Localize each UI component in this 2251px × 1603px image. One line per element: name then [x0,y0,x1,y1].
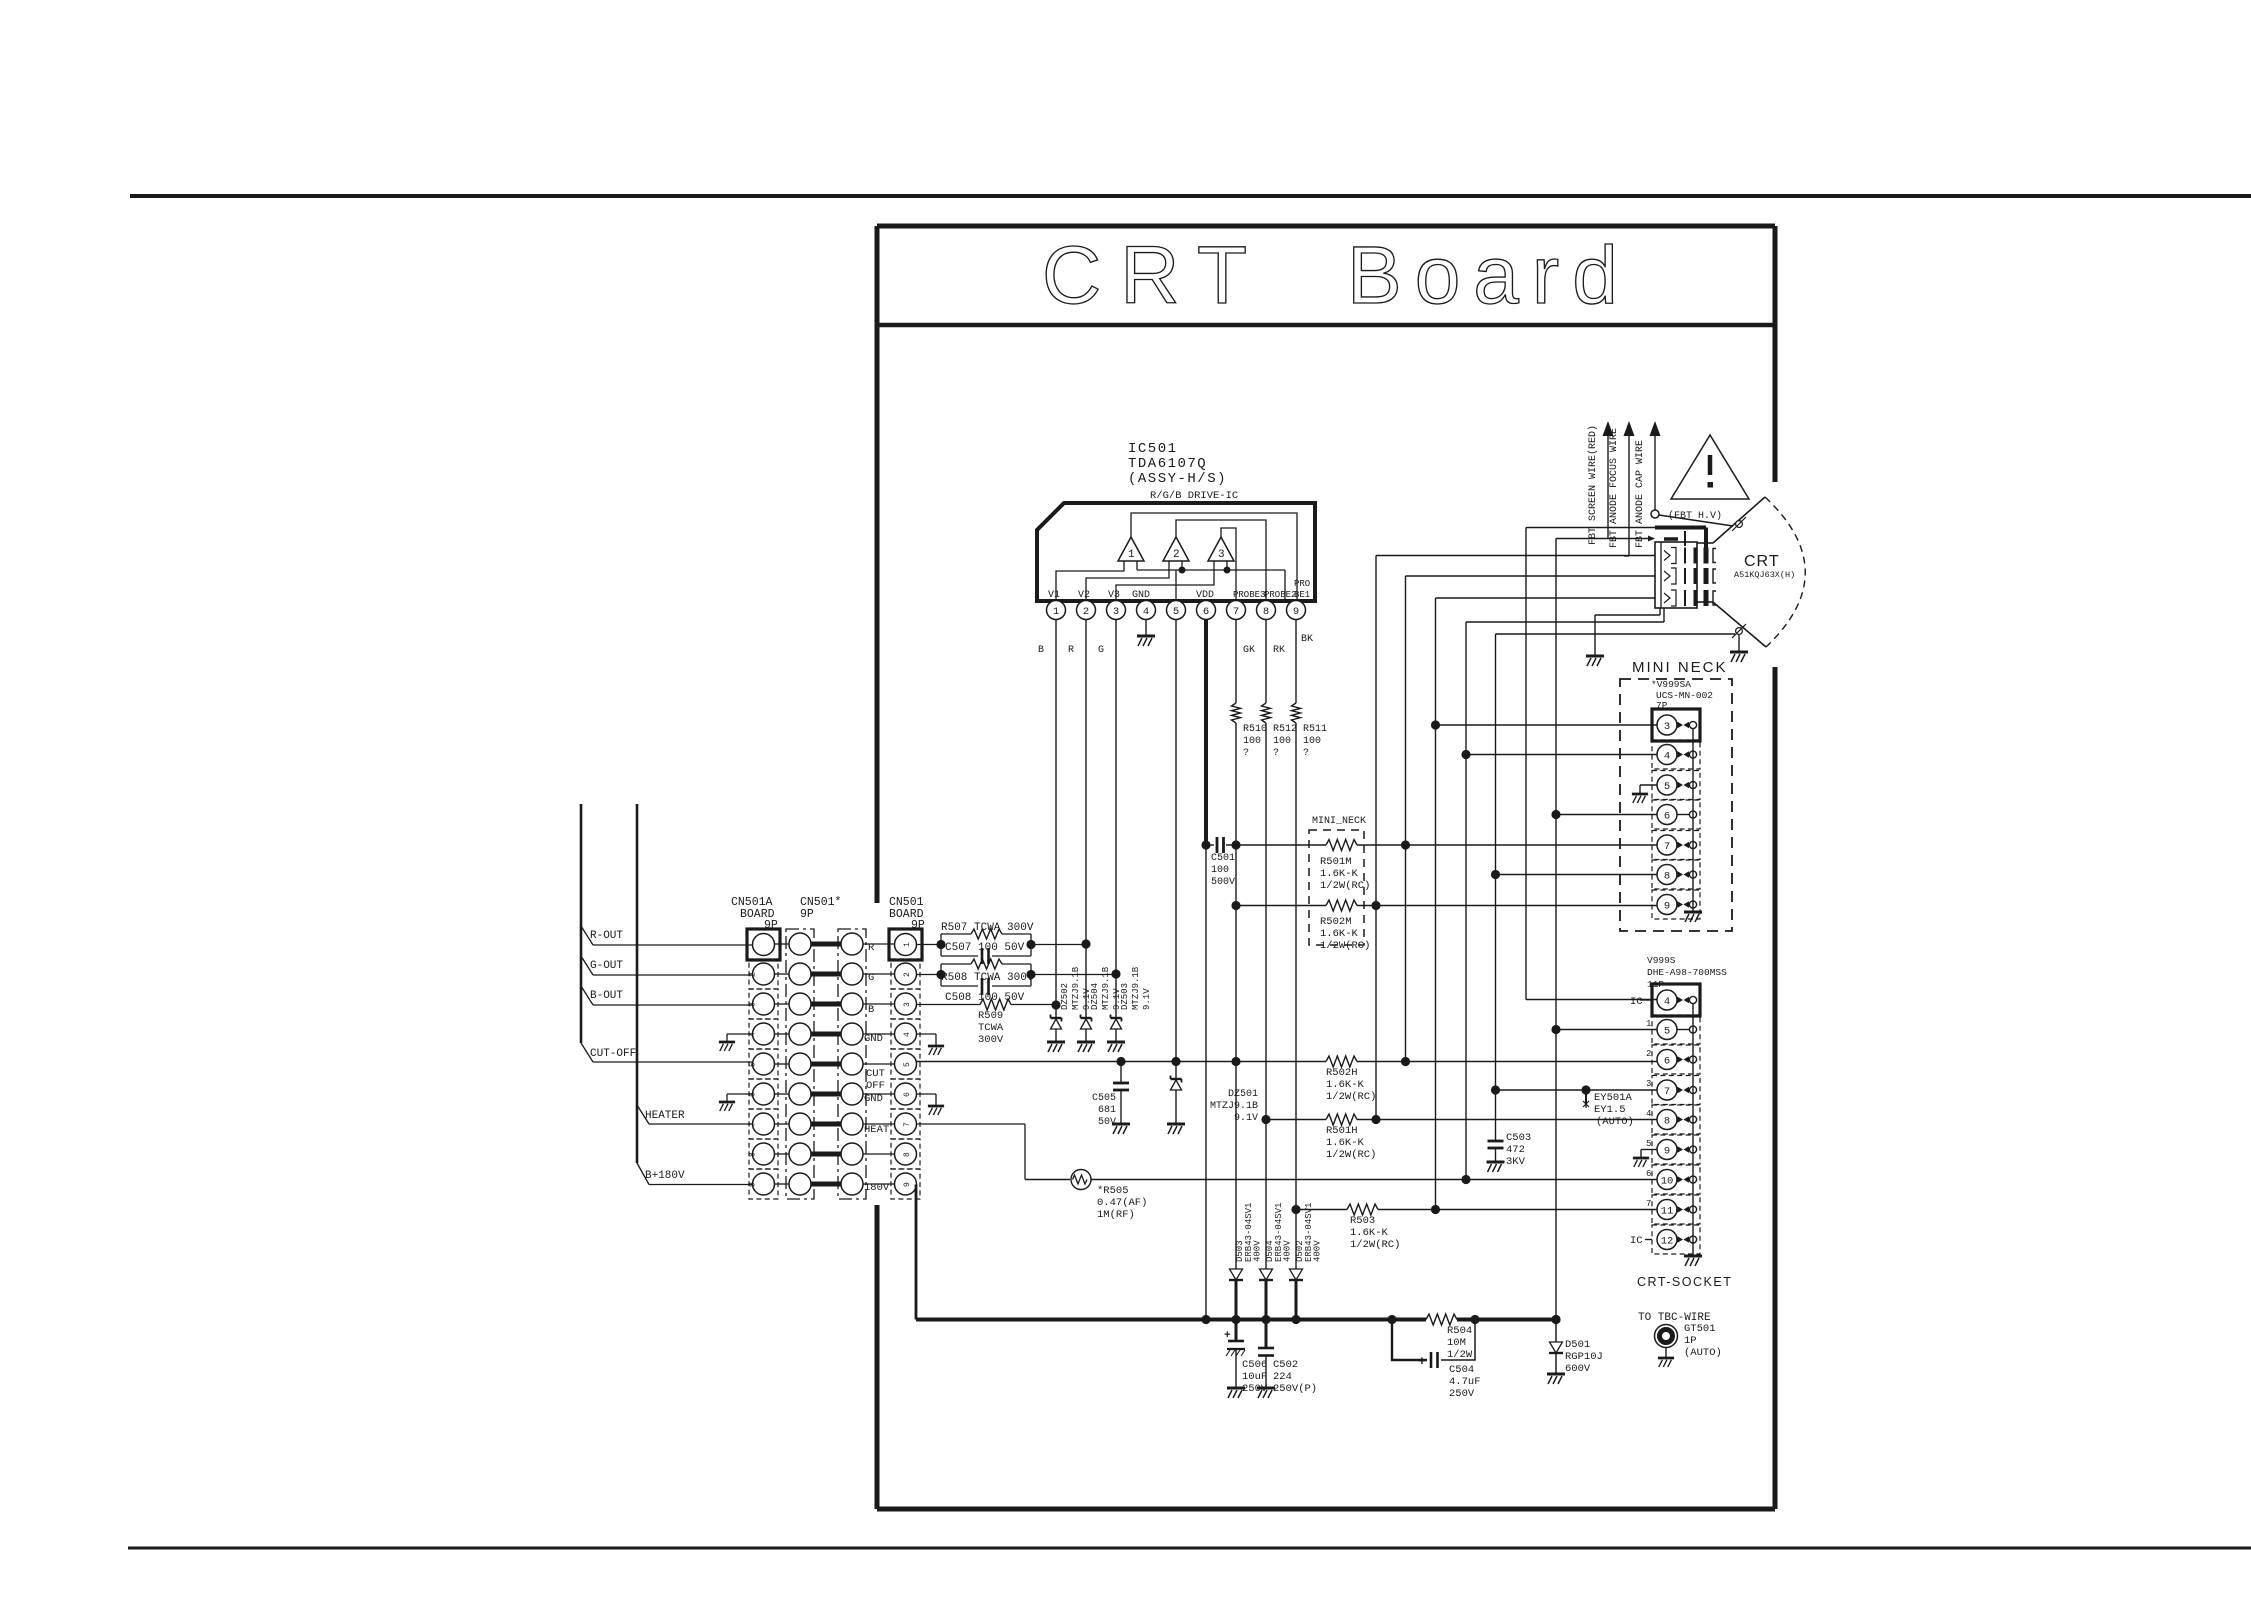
connector CN501A pin5 [749,1049,778,1079]
connector CN501* pair row6 [775,1093,790,1095]
svg-text:RK: RK [1273,645,1285,656]
svg-text:GT501: GT501 [1684,1323,1716,1335]
svg-text:GND: GND [864,1093,883,1105]
connector CN501 pin1 [889,929,922,960]
wire cathode row3 [1436,597,1656,599]
svg-text:VDD: VDD [1196,590,1214,601]
svg-text:7: 7 [903,1122,912,1127]
svg-text:PRO: PRO [1294,579,1310,589]
connector CN501 pin4 [891,1019,920,1049]
svg-text:5: 5 [903,1062,912,1067]
svg-text:5: 5 [749,1062,758,1067]
svg-text:RGP10J: RGP10J [1565,1351,1603,1363]
connector V999SA pin8 [1652,860,1700,889]
resistor R504 [1426,1314,1457,1325]
svg-text:4: 4 [1664,996,1670,1008]
svg-text:9: 9 [1293,606,1299,618]
capacitor C505 [1120,1062,1122,1084]
CRT Board frame [877,224,1775,229]
svg-text:4: 4 [1143,606,1149,618]
svg-text:3: 3 [1218,549,1225,561]
svg-text:1/2W: 1/2W [1447,1349,1473,1361]
ground C503 [1487,1162,1505,1172]
svg-text:4: 4 [1646,1109,1651,1119]
wire CUT line [917,1061,1327,1063]
svg-text:3: 3 [1646,1079,1651,1089]
zener DZ501 [1171,1078,1182,1080]
connector CN501A pin9 [749,1169,778,1199]
top page rule [130,194,2251,198]
svg-text:10M: 10M [1447,1337,1466,1349]
node BK-R503 [1291,1205,1300,1214]
CRT-SOCKET bus [1692,1004,1694,1256]
svg-text:4.7uF: 4.7uF [1449,1376,1481,1388]
svg-text:5: 5 [1664,1025,1670,1037]
svg-text:DZ503: DZ503 [1120,983,1130,1010]
svg-text:472: 472 [1506,1144,1525,1156]
svg-text:B: B [1038,645,1044,656]
CRT-SOCKET pin9 ground [1641,1149,1657,1151]
connector V999S pin9 [1652,1135,1700,1164]
svg-text:R502H: R502H [1326,1067,1358,1079]
svg-text:1/2W(RC): 1/2W(RC) [1326,1149,1376,1161]
svg-text:CRT: CRT [1744,553,1780,570]
resistor R503 [1296,1209,1347,1211]
svg-text:9: 9 [903,1182,912,1187]
wire cathode row2 [1406,575,1656,577]
svg-text:MTZJ9.1B: MTZJ9.1B [1210,1101,1258,1112]
node GK-R502H [1231,1057,1240,1066]
svg-text:R503: R503 [1350,1215,1375,1227]
svg-text:D501: D501 [1565,1339,1590,1351]
svg-text:TCWA: TCWA [978,1022,1004,1034]
connector CN501A pin7 [749,1109,778,1139]
svg-text:1.6K-K: 1.6K-K [1320,868,1359,880]
resistor R502H [1326,1056,1357,1067]
wire VDD thick [1204,619,1208,845]
svg-text:B: B [868,1004,874,1016]
wire R column [1085,619,1087,1018]
connector V999S pin7 [1652,1076,1700,1105]
svg-text:B+180V: B+180V [645,1170,685,1182]
amp triangle 1 [1118,537,1144,561]
svg-text:2: 2 [1173,549,1180,561]
svg-text:C501: C501 [1211,853,1235,864]
svg-text:1.6K-K: 1.6K-K [1326,1137,1365,1149]
ground MINI NECK bus [1684,912,1702,922]
wire pin5 column [1175,619,1177,1079]
connector CN501* pair row5 [775,1063,790,1065]
node G-R508 [1111,969,1120,978]
CN501A pin4 ground [727,1033,753,1035]
connector V999SA pin5 [1652,771,1700,800]
svg-text:6: 6 [1664,1055,1670,1067]
wire vert B [1405,576,1407,1062]
ground C505 [1112,1124,1130,1134]
svg-text:0.47(AF): 0.47(AF) [1097,1197,1147,1209]
FBT screen wire [1607,436,1609,539]
zener DZ504 [1081,1017,1092,1019]
connector CN501* pair row2 [775,973,790,975]
wire CN501 pin2 to R508 [917,974,942,976]
wire 180V drop [915,1184,918,1186]
svg-text:250V: 250V [1449,1388,1475,1400]
svg-text:8: 8 [1664,1115,1670,1127]
svg-text:R502M: R502M [1320,916,1352,928]
diode D501 [1555,1320,1557,1343]
svg-text:1/2W(RC): 1/2W(RC) [1320,880,1370,892]
svg-text:4: 4 [903,1032,912,1037]
svg-text:250V(P): 250V(P) [1273,1383,1317,1395]
svg-text:PROBE3: PROBE3 [1233,590,1265,600]
svg-text:C504: C504 [1449,1364,1474,1376]
HEATER tap [637,1105,649,1124]
CRT bell outline [1697,542,1713,544]
svg-text:R512: R512 [1273,724,1297,735]
svg-text:9: 9 [749,1182,758,1187]
connector CN501 pin7 [891,1109,920,1139]
svg-text:1/2W(RC): 1/2W(RC) [1350,1239,1400,1251]
connector V999SA pin4 [1652,740,1700,769]
connector CN501A pin4 [749,1019,778,1049]
connector CN501 pin6 [891,1079,920,1109]
svg-text:2: 2 [749,972,758,977]
wire MN pin8 [1496,874,1658,876]
svg-text:9P: 9P [800,908,814,921]
svg-text:5: 5 [1664,781,1670,793]
svg-text:IC: IC [1630,1235,1643,1247]
IC internal bias bus [1136,561,1138,570]
svg-text:(ASSY-H/S): (ASSY-H/S) [1128,471,1227,487]
wire vert C [1435,598,1437,1210]
amp triangle 2 [1163,537,1189,561]
CN501 pin6 ground [917,1093,937,1095]
svg-text:CRT: CRT [1042,230,1266,321]
B-OUT tap [581,986,593,1005]
wire socket pin5 [1556,1029,1657,1031]
ground bell screw [1730,652,1748,662]
wire G3 row to bell screw [1496,633,1736,635]
svg-text:PROBE2: PROBE2 [1264,590,1296,600]
svg-text:10: 10 [1661,1175,1674,1187]
svg-text:50V: 50V [1098,1117,1116,1128]
wire vert A [1375,556,1377,1120]
CUT-OFF tap [581,1043,593,1062]
svg-text:R501H: R501H [1326,1125,1358,1137]
connector V999SA pin3 [1652,709,1700,741]
svg-text:7: 7 [1664,1086,1670,1098]
svg-text:C506: C506 [1242,1359,1267,1371]
svg-text:DZ502: DZ502 [1060,983,1070,1010]
svg-text:1M(RF): 1M(RF) [1097,1209,1135,1221]
svg-text:1.6K-K: 1.6K-K [1326,1079,1365,1091]
svg-text:4: 4 [1664,750,1670,762]
svg-text:DZ504: DZ504 [1090,983,1100,1010]
wire GK column [1235,619,1237,703]
svg-text:CUT-OFF: CUT-OFF [590,1048,636,1060]
wire vert G [1555,539,1557,1320]
thick 180V bus [916,1318,1426,1322]
svg-text:DHE-A98-700MSS: DHE-A98-700MSS [1647,967,1727,978]
connector V999SA pin7 [1652,831,1700,860]
ground DZ501 [1167,1124,1185,1134]
CN501A pin6 ground [727,1093,753,1095]
zener DZ502 [1051,1017,1062,1019]
IC internal output wires [1131,513,1297,601]
svg-text:7: 7 [1233,606,1239,618]
svg-text:2: 2 [903,972,912,977]
CN501 pin4 ground [917,1033,937,1035]
wire heater row [1556,538,1648,540]
svg-text:V1: V1 [1048,590,1060,601]
svg-text:MTZJ9.1B: MTZJ9.1B [1131,966,1141,1010]
svg-text:+: + [1418,1354,1426,1369]
node GK-845 [1231,840,1240,849]
wire MN pin6 [1556,814,1657,816]
svg-text:C502: C502 [1273,1359,1298,1371]
svg-text:V999S: V999S [1647,955,1676,966]
warning triangle [1671,435,1749,499]
node R-R507 [1081,939,1090,948]
svg-text:5: 5 [1173,606,1179,618]
svg-text:R511: R511 [1303,724,1327,735]
connector CN501A pin3 [749,989,778,1019]
svg-text:10uF: 10uF [1242,1371,1267,1383]
connector CN501A pin2 [749,959,778,989]
connector CN501* pair row1 [775,943,790,945]
connector CN501A pin8 [749,1139,778,1169]
svg-text:BE1: BE1 [1294,590,1310,600]
left rail B [636,804,639,1163]
capacitor C506 [1235,1320,1238,1342]
resistor R502M [1236,905,1326,907]
svg-text:BK: BK [1301,634,1313,645]
svg-text:600V: 600V [1565,1363,1591,1375]
svg-text:1: 1 [1128,549,1135,561]
connector CN501 pin8 [891,1139,920,1169]
CRT socket block [1655,542,1697,608]
svg-text:GND: GND [1132,590,1150,601]
svg-text:V3: V3 [1108,590,1120,601]
wire B column [1055,619,1057,1018]
svg-text:100: 100 [1303,736,1321,747]
svg-text:100: 100 [1211,865,1229,876]
G-OUT tap [581,956,593,975]
svg-text:R: R [1068,645,1074,656]
connector V999SA pin6 [1652,800,1700,829]
svg-text:8: 8 [749,1152,758,1157]
resistor R510 [1232,703,1241,723]
svg-text:(AUTO): (AUTO) [1684,1347,1722,1359]
connector CN501* pair row7 [775,1123,790,1125]
wire EY501A [1496,1089,1658,1091]
svg-text:Board: Board [1347,230,1631,321]
svg-text:R509: R509 [978,1010,1003,1022]
MINI NECK bus [1692,729,1694,912]
wire G2 row [1526,527,1655,529]
svg-text:R504: R504 [1447,1325,1472,1337]
svg-text:3: 3 [749,1002,758,1007]
wire socket pin4 IC [1526,999,1657,1001]
ground DZ503 [1107,1042,1125,1052]
CRT block ground [1659,608,1661,615]
connector CN501* pair row9 [775,1183,790,1185]
wire RK column [1265,619,1267,703]
svg-text:MTZJ9.1B: MTZJ9.1B [1101,966,1111,1010]
svg-text:CRT-SOCKET: CRT-SOCKET [1637,1275,1732,1289]
svg-text:R501M: R501M [1320,856,1352,868]
connector CN501A pin6 [749,1079,778,1109]
svg-text:?: ? [1303,748,1309,759]
connector V999SA pin9 [1652,890,1700,919]
svg-text:R507 TCWA 300V: R507 TCWA 300V [941,922,1034,934]
left rail A [580,804,583,1043]
svg-text:C507 100 50V: C507 100 50V [945,942,1025,954]
svg-text:100: 100 [1273,736,1291,747]
resistor R505 [1025,1179,1070,1181]
ground DZ502 [1047,1042,1065,1052]
ground DZ504 [1077,1042,1095,1052]
connector V999S pin10 [1652,1165,1700,1194]
wire vert D [1465,622,1467,1180]
svg-text:C505: C505 [1092,1093,1116,1104]
svg-text:11: 11 [1661,1205,1674,1217]
MINI NECK pin5 ground [1640,784,1657,786]
resistor R512 [1262,703,1271,723]
svg-text:HEAT: HEAT [864,1124,889,1136]
svg-text:500V: 500V [1211,877,1235,888]
svg-text:FBT ANODE CAP WIRE: FBT ANODE CAP WIRE [1635,440,1646,548]
IC internal input wires [1056,561,1124,601]
wire vert F [1525,528,1527,1000]
FBT anode cap wire [1654,436,1656,510]
svg-text:8: 8 [903,1152,912,1157]
svg-text:1.6K-K: 1.6K-K [1350,1227,1389,1239]
svg-text:R-OUT: R-OUT [590,930,623,942]
svg-text:7: 7 [1646,1199,1651,1209]
svg-text:*V999SA: *V999SA [1651,679,1691,690]
FBT HV node [1651,510,1659,518]
connector V999S pin11 [1652,1195,1700,1224]
svg-text:R: R [868,942,875,954]
svg-text:?: ? [1243,748,1249,759]
capacitor C504 loop [1392,1320,1427,1361]
svg-text:GK: GK [1243,645,1255,656]
svg-text:2: 2 [1646,1049,1651,1059]
svg-text:FBT SCREEN WIRE(RED): FBT SCREEN WIRE(RED) [1587,425,1599,545]
svg-text:400V: 400V [1253,1240,1263,1262]
svg-text:(FBT H.V): (FBT H.V) [1668,510,1722,522]
connector V999S pin12 [1652,1225,1700,1254]
bottom page rule [128,1547,2251,1550]
ground D501 [1547,1374,1565,1384]
svg-text:180V: 180V [864,1182,890,1194]
svg-text:9: 9 [1664,1145,1670,1157]
svg-text:MINI_NECK: MINI_NECK [1312,816,1366,827]
connector V999S pin6 [1652,1045,1700,1074]
svg-text:1: 1 [1646,1019,1651,1029]
capacitor C502 [1265,1320,1268,1349]
node GK-R502M [1231,901,1240,910]
wire HEAT [917,1123,1026,1125]
wire BK column [1295,619,1297,703]
svg-text:R/G/B DRIVE-IC: R/G/B DRIVE-IC [1150,490,1238,502]
R-OUT tap [581,926,593,945]
connector V999S pin8 [1652,1105,1700,1134]
svg-text:7: 7 [749,1122,758,1127]
svg-text:400V: 400V [1283,1240,1293,1262]
svg-text:G: G [1098,645,1104,656]
svg-text:100: 100 [1243,736,1261,747]
svg-text:681: 681 [1098,1105,1116,1116]
CRT electrode dashes [1684,548,1686,564]
MINI NECK dashed box [1620,679,1732,931]
connector CN501* pair row3 [775,1003,790,1005]
svg-text:8: 8 [1263,606,1269,618]
svg-text:6: 6 [1203,606,1209,618]
wire G1 row [1466,621,1664,623]
ground C506 [1227,1388,1245,1398]
connector CN501 pin5 [891,1049,920,1079]
svg-text:MINI NECK: MINI NECK [1632,659,1728,676]
ground under IC pin4 [1145,619,1147,636]
svg-text:V2: V2 [1078,590,1090,601]
wire MN pin4 [1466,754,1657,756]
node VDD-C501 [1201,840,1210,849]
svg-text:9: 9 [1664,900,1670,912]
resistor R511 [1292,703,1301,723]
zener DZ503 [1111,1017,1122,1019]
connector V999S pin5 [1652,1015,1700,1044]
resistor R501H [1266,1119,1326,1121]
svg-text:TDA6107Q: TDA6107Q [1128,456,1207,472]
svg-text:6: 6 [903,1092,912,1097]
resistor R508 / capacitor C508 pair [941,964,1031,986]
svg-text:1: 1 [1053,606,1059,618]
amp triangle 3 [1208,537,1234,561]
svg-text:7: 7 [1664,841,1670,853]
wire MN pin3 [1436,724,1658,726]
svg-text:1.6K-K: 1.6K-K [1320,928,1359,940]
diode D502 [1290,1269,1303,1280]
svg-text:C503: C503 [1506,1132,1531,1144]
svg-text:224: 224 [1273,1371,1292,1383]
svg-text:(AUTO): (AUTO) [1596,1116,1634,1128]
B+180V tap [637,1163,649,1185]
svg-text:+: + [1224,1330,1231,1342]
svg-text:G: G [868,972,874,984]
node RK-R501H [1261,1115,1270,1124]
svg-text:1/2W(RC): 1/2W(RC) [1326,1091,1376,1103]
svg-text:6: 6 [1646,1169,1651,1179]
svg-text:GND: GND [864,1033,883,1045]
ground C502 [1257,1388,1275,1398]
svg-text:DZ501: DZ501 [1228,1089,1258,1100]
capacitor C503 [1488,1140,1504,1143]
connector CN501 pin9 [891,1169,920,1199]
node B-DZ502 [1051,1000,1060,1009]
IC pin circles [1047,601,1066,620]
wire CN501 pin1 to R507 [917,944,942,946]
svg-text:3: 3 [1113,606,1119,618]
bell screw bottom [1736,628,1743,635]
connector CN501* pair row8 [775,1153,790,1155]
svg-text:6: 6 [1664,810,1670,822]
connector CN501* pair row4 [775,1033,790,1035]
wire vert E [1495,634,1497,1141]
svg-text:8: 8 [1664,870,1670,882]
svg-text:A51KQJ63X(H): A51KQJ63X(H) [1734,570,1795,580]
